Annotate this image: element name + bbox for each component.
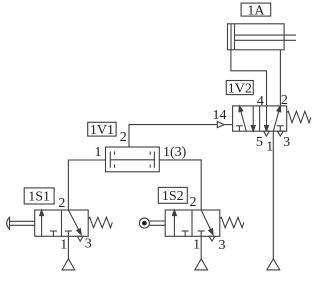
1V2 exhaust port 3 silencer triangle bbox=[277, 131, 283, 136]
valve 1V2 body (5/2 way valve) bbox=[233, 106, 287, 131]
svg-text:1S2: 1S2 bbox=[162, 189, 184, 204]
label box 1S1 bbox=[24, 188, 54, 205]
svg-text:1: 1 bbox=[95, 145, 102, 160]
1S1 right cell blocked port 1 bbox=[67, 231, 69, 236]
1V2 left cell blocked port 5 bbox=[238, 126, 240, 131]
1V2 pilot port 14 triangle bbox=[217, 122, 224, 128]
1S2 right cell blocked port 1 bbox=[200, 231, 202, 236]
svg-text:2: 2 bbox=[281, 93, 288, 108]
svg-text:1: 1 bbox=[193, 237, 200, 252]
1S2 roller actuator bbox=[139, 218, 165, 228]
svg-text:5: 5 bbox=[256, 135, 263, 150]
1V2 right cell flow path 4-5 (arrow down) bbox=[266, 106, 268, 127]
1S1 exhaust port 3 triangle bbox=[77, 236, 83, 241]
svg-text:1S1: 1S1 bbox=[28, 190, 50, 205]
cylinder 1A (double-acting) bbox=[228, 24, 297, 50]
svg-text:2: 2 bbox=[120, 130, 127, 145]
1V2 left cell flow path 1-4 (arrow) bbox=[241, 110, 247, 131]
1V2 right cell blocked port 3 bbox=[279, 126, 281, 131]
wire 1S2 port 1 to air supply bbox=[200, 236, 202, 259]
valve 1V1 body (two-pressure valve, AND) bbox=[106, 147, 160, 172]
svg-text:14: 14 bbox=[213, 108, 227, 123]
svg-text:1: 1 bbox=[60, 238, 67, 253]
svg-text:4: 4 bbox=[257, 94, 264, 109]
air supply source for 1S1 bbox=[62, 259, 75, 270]
label box 1S2 bbox=[158, 187, 187, 204]
1S1 left cell flow path 1-2 (arrow up) bbox=[41, 215, 43, 237]
1S2 return spring bbox=[220, 217, 244, 228]
1S1 right cell flow path 2-3 (arrow) bbox=[68, 210, 79, 231]
1S1 left cell blocked port 3 bbox=[52, 231, 54, 236]
air supply source for 1S2 bbox=[195, 259, 208, 270]
svg-text:1(3): 1(3) bbox=[163, 145, 187, 160]
svg-text:1A: 1A bbox=[247, 3, 265, 18]
valve 1S2 body (3/2 way valve) bbox=[165, 210, 220, 236]
svg-text:1V1: 1V1 bbox=[90, 123, 114, 138]
1S2 exhaust port 3 triangle bbox=[209, 236, 215, 241]
1S2 left cell blocked port 3 bbox=[184, 231, 186, 236]
svg-text:2: 2 bbox=[190, 195, 197, 210]
wire cylinder 1A cap-end port to 1V2 port 4 bbox=[231, 50, 267, 106]
wire 1V2 port 1 to air supply bbox=[272, 131, 274, 259]
1S1 push-button actuator (mushroom head) bbox=[7, 217, 35, 229]
svg-text:3: 3 bbox=[85, 237, 92, 252]
label 1A bbox=[241, 3, 271, 18]
1S1 return spring bbox=[88, 217, 112, 228]
svg-text:2: 2 bbox=[58, 196, 65, 211]
1V2 return spring bbox=[287, 111, 311, 123]
wire 1S1 port 2 to 1V1 port 1 bbox=[68, 160, 105, 210]
valve 1S1 body (3/2 way valve) bbox=[35, 210, 88, 236]
wire cylinder 1A rod-end port to 1V2 port 2 bbox=[279, 50, 281, 106]
wire 1S1 port 1 to air supply bbox=[67, 236, 69, 259]
wire 1V1 output 2 to 1V2 pilot 14 bbox=[129, 125, 217, 147]
wire pilot triangle to 1V2 body bbox=[224, 124, 232, 126]
1V2 exhaust port 5 silencer triangle bbox=[264, 131, 270, 136]
1V2 right cell flow path 1-2 (arrow up) bbox=[273, 110, 279, 131]
wire 1V1 port 1(3) to 1S2 port 2 bbox=[159, 160, 201, 210]
label box 1V2 bbox=[226, 81, 253, 97]
svg-text:1V2: 1V2 bbox=[228, 81, 252, 96]
1S2 right cell flow path 2-3 (arrow) bbox=[201, 210, 211, 230]
1V2 left cell flow path 2-3 (arrow down) bbox=[252, 106, 254, 127]
label box 1V1 bbox=[88, 122, 116, 138]
air supply source for 1V2 bbox=[267, 259, 280, 270]
svg-text:1: 1 bbox=[266, 139, 273, 154]
svg-text:3: 3 bbox=[219, 238, 226, 253]
svg-text:3: 3 bbox=[283, 135, 290, 150]
1S2 left cell flow path 1-2 (arrow up) bbox=[173, 215, 175, 237]
